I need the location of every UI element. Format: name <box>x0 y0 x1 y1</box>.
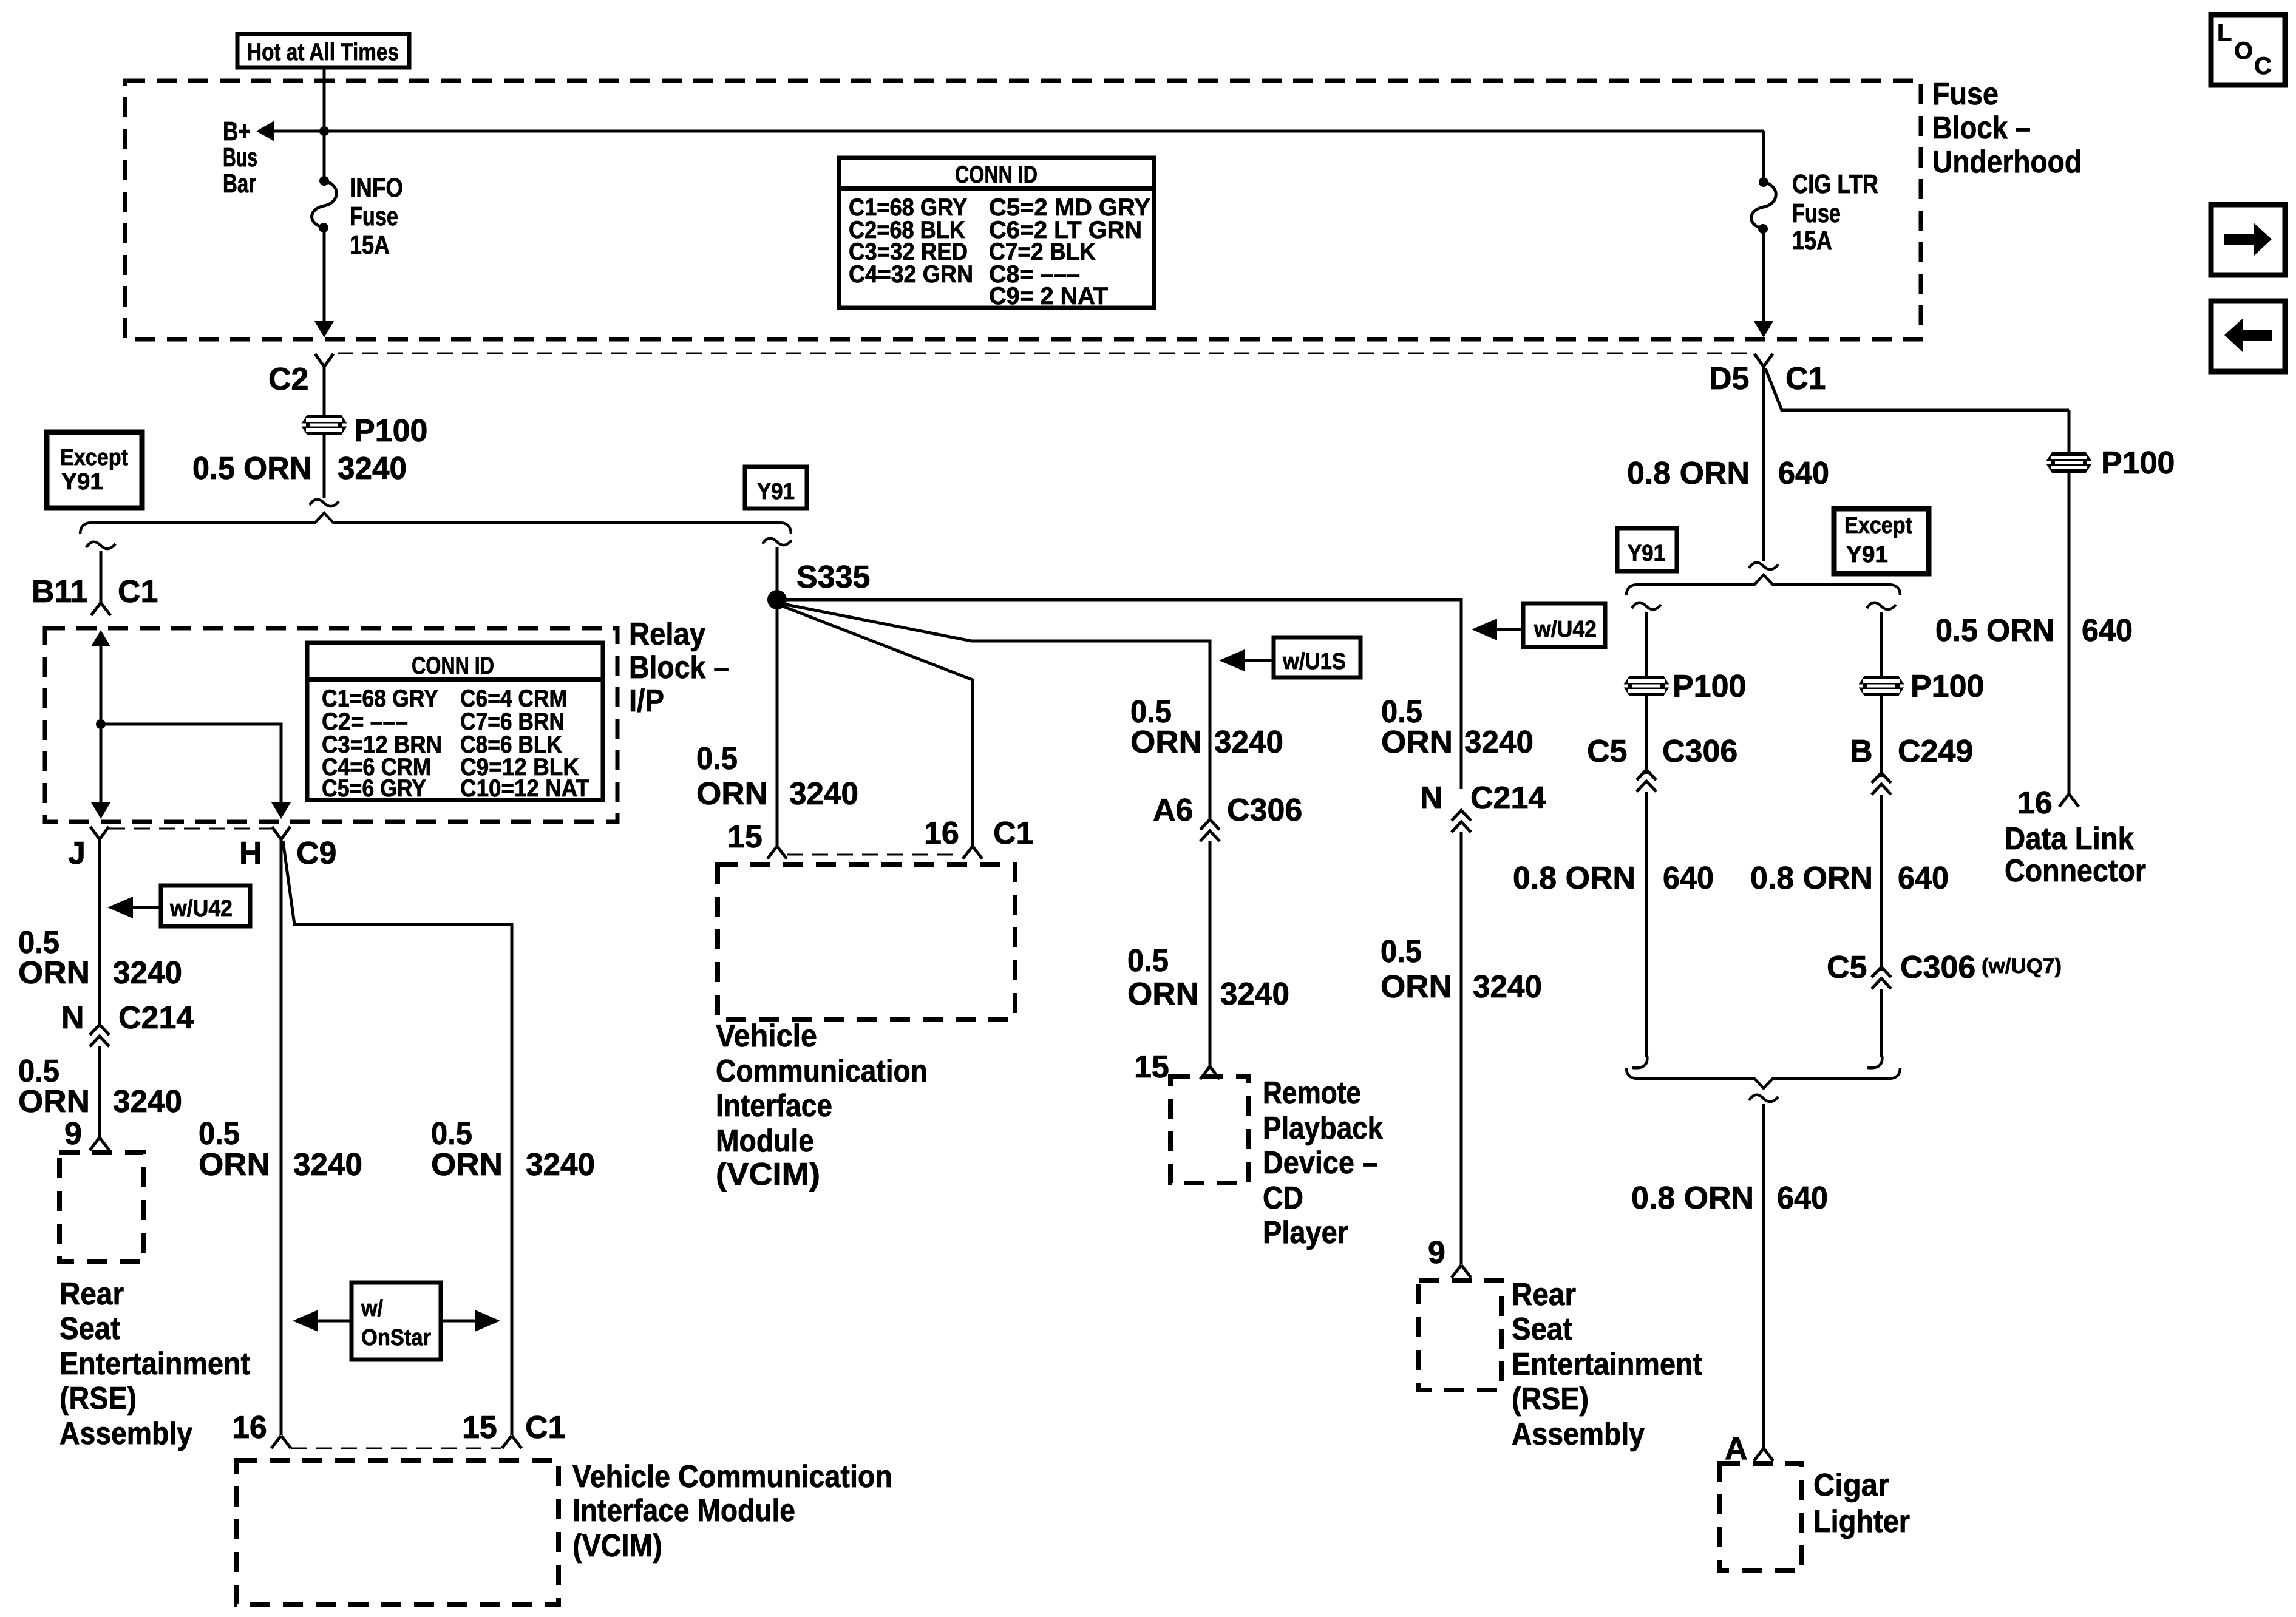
svg-text:16: 16 <box>2017 785 2053 821</box>
component name: Cigar Lighter <box>1813 1468 1910 1539</box>
svg-text:P100: P100 <box>1911 669 1984 704</box>
svg-text:A6: A6 <box>1153 793 1193 828</box>
svg-text:N: N <box>1420 781 1443 816</box>
label: N / C214 (left) <box>61 1000 194 1036</box>
svg-text:0.8 ORN: 0.8 ORN <box>1627 456 1750 491</box>
svg-text:C10=12 NAT: C10=12 NAT <box>460 775 589 802</box>
connector P100 grommet (Except-Y91 drop) <box>1858 676 1905 696</box>
wire: relay block internal branch to H <box>101 724 281 805</box>
svg-text:16: 16 <box>232 1410 267 1445</box>
svg-text:P100: P100 <box>1673 669 1746 704</box>
svg-text:3240: 3240 <box>526 1147 595 1182</box>
svg-text:C306: C306 <box>1662 734 1737 769</box>
connector B11/C1 into relay block <box>91 603 110 615</box>
svg-text:(RSE): (RSE) <box>59 1381 137 1416</box>
connector P100 grommet (Y91 drop) <box>1623 676 1670 696</box>
svg-text:16: 16 <box>924 816 959 851</box>
label: B / C249 <box>1850 734 1973 769</box>
svg-text:Underhood: Underhood <box>1932 144 2082 180</box>
value label: 0.5 ORN 3240 <box>192 451 407 486</box>
label: N / C214 (middle) <box>1420 781 1546 816</box>
svg-text:CONN ID: CONN ID <box>412 653 494 679</box>
label box: Hot at All Times <box>237 34 409 67</box>
svg-text:640: 640 <box>1898 861 1949 896</box>
svg-text:0.5 ORN: 0.5 ORN <box>1935 613 2054 648</box>
svg-text:Player: Player <box>1263 1215 1348 1250</box>
fuse: CIG LTR Fuse 15A <box>1751 177 1776 234</box>
connector C306 inline (double chevron, Y91 drop) <box>1637 770 1656 792</box>
Cigar Lighter dashed box <box>1720 1463 1802 1571</box>
svg-text:C4=32 GRN: C4=32 GRN <box>849 261 973 288</box>
node S335: splice <box>767 590 787 609</box>
svg-text:ORN: ORN <box>696 776 768 812</box>
svg-text:(VCIM): (VCIM) <box>572 1528 662 1564</box>
svg-text:Y91: Y91 <box>1846 542 1888 568</box>
wire break squiggle (Y91 drop) <box>1632 603 1661 609</box>
label arrow: w/U1S <box>1219 637 1360 677</box>
svg-text:Cigar: Cigar <box>1813 1468 1889 1503</box>
arrowhead: feed into relay block (up) <box>91 630 110 646</box>
wire: branch down to P100 (data link) <box>2068 410 2071 452</box>
connector: VCIM pin 15 <box>502 1436 521 1448</box>
wire: C1 diagonal branch to data link connector <box>1765 368 2069 410</box>
svg-text:P100: P100 <box>2101 446 2175 481</box>
value label: 0.5 ORN 3240 (N-C214 middle wire) <box>1381 694 1533 760</box>
svg-text:CD: CD <box>1263 1181 1303 1216</box>
svg-text:CONN ID: CONN ID <box>955 161 1038 188</box>
svg-text:Bus: Bus <box>223 143 257 172</box>
svg-text:O: O <box>2234 38 2253 64</box>
svg-text:J: J <box>68 836 86 871</box>
svg-text:0.5: 0.5 <box>696 741 738 776</box>
svg-text:Entertainment: Entertainment <box>1512 1347 1702 1382</box>
svg-text:Entertainment: Entertainment <box>59 1346 250 1381</box>
svg-text:0.5: 0.5 <box>1381 934 1422 969</box>
connector C306 inline (double chevron) <box>1200 819 1220 841</box>
connector: data link connector pin 16 <box>2059 794 2079 807</box>
svg-text:15: 15 <box>1134 1049 1169 1085</box>
svg-text:CIG LTR: CIG LTR <box>1792 169 1878 199</box>
connector: RSE assembly pin 9 <box>90 1137 109 1150</box>
value label: 0.5 ORN 3240 (CD wire) <box>1130 694 1283 760</box>
icon box: page arrow left <box>2211 301 2285 371</box>
svg-text:Fuse: Fuse <box>1792 198 1841 228</box>
wire: C214 to RSE pin 9 <box>98 1046 101 1137</box>
value label: 0.5 ORN 640 <box>1935 613 2133 648</box>
wire: P100 to C249 <box>1880 696 1883 777</box>
connector J: relay block output pin <box>90 827 109 839</box>
component name: VCIM (middle) <box>716 1019 928 1192</box>
label box: Except Y91 (right) <box>1834 509 1929 574</box>
boundary: thin dashed line at relay block outputs <box>109 828 273 830</box>
svg-text:3240: 3240 <box>789 776 858 812</box>
value label: 0.5 ORN 3240 (below A6) <box>1127 943 1289 1012</box>
wire: P100 to split brace, circuit 3240 <box>323 435 326 498</box>
svg-text:0.5: 0.5 <box>431 1116 472 1151</box>
svg-text:C306: C306 <box>1900 950 1975 985</box>
wire: relay block internal vertical <box>100 645 103 805</box>
wire: Y91 drop to P100 <box>1645 612 1648 676</box>
svg-text:C306: C306 <box>1227 793 1302 828</box>
svg-text:OnStar: OnStar <box>361 1325 431 1351</box>
Relay Block I/P dashed box <box>45 628 617 822</box>
svg-text:ORN: ORN <box>199 1147 270 1182</box>
wire: C214 to RSE pin 9 (middle) <box>1460 832 1463 1264</box>
connector P100 grommet (left) <box>301 415 348 435</box>
wire: P100 to data link pin 16, circuit 640 <box>2068 473 2071 794</box>
Vehicle Communication Interface Module dashed box (middle) <box>718 864 1015 1019</box>
label: A6 / C306 <box>1153 793 1302 828</box>
svg-text:C214: C214 <box>118 1000 194 1036</box>
svg-text:Relay: Relay <box>629 617 705 652</box>
fuse: INFO Fuse 15A <box>312 176 337 232</box>
Fuse Block - Underhood dashed box <box>125 81 1921 339</box>
svg-text:Except: Except <box>60 445 128 470</box>
value label: 0.8 ORN 640 (main) <box>1627 456 1829 491</box>
icon box: page arrow right <box>2211 205 2285 275</box>
svg-text:9: 9 <box>1428 1235 1445 1270</box>
connector: CD player pin 15 <box>1200 1066 1220 1079</box>
svg-text:640: 640 <box>1663 861 1714 896</box>
wire break squiggle above Y91 split brace <box>1749 563 1778 569</box>
svg-text:Remote: Remote <box>1263 1076 1361 1111</box>
svg-text:(w/UQ7): (w/UQ7) <box>1982 955 2062 978</box>
arrowhead: B+ bus bar <box>256 121 274 141</box>
svg-text:C5=6 GRY: C5=6 GRY <box>322 775 426 802</box>
wire: D5 down to Y91 split <box>1762 367 1765 561</box>
svg-text:Data Link: Data Link <box>2005 821 2134 856</box>
wire break squiggle above brace <box>310 500 339 506</box>
svg-text:15A: 15A <box>1792 226 1832 256</box>
svg-text:ORN: ORN <box>18 1084 90 1119</box>
table: CONN ID (fuse block underhood) <box>839 158 1154 310</box>
connector C2: fuse block pin <box>315 354 333 367</box>
connector: VCIM pin 16 (top) <box>963 846 982 859</box>
wire break hook (Except-Y91 drop end) <box>1867 1056 1882 1068</box>
label box: w/ OnStar with arrows <box>293 1283 500 1360</box>
wire: C306 to CD player pin 15 <box>1209 841 1212 1066</box>
svg-text:w/: w/ <box>361 1296 383 1321</box>
svg-text:Except: Except <box>1844 513 1912 538</box>
svg-text:Interface Module: Interface Module <box>572 1493 795 1528</box>
svg-text:Vehicle Communication: Vehicle Communication <box>572 1459 892 1494</box>
arrowhead: CIG LTR fuse exit <box>1754 321 1773 337</box>
svg-text:Rear: Rear <box>59 1276 124 1312</box>
svg-text:C2: C2 <box>268 362 308 397</box>
node: relay block internal junction <box>96 719 106 729</box>
svg-text:15A: 15A <box>350 230 390 260</box>
svg-text:3240: 3240 <box>1464 725 1533 760</box>
wire break squiggle (Except-Y91 drop) <box>1867 603 1896 609</box>
value label: 0.8 ORN 640 (cigar feed) <box>1631 1181 1828 1216</box>
brace: merge of Y91 and Except-Y91 feeds <box>1626 1068 1900 1088</box>
svg-text:C1: C1 <box>993 816 1033 851</box>
svg-text:3240: 3240 <box>338 451 407 486</box>
svg-text:Y91: Y91 <box>757 479 795 504</box>
svg-text:Vehicle: Vehicle <box>716 1019 817 1054</box>
svg-text:Y91: Y91 <box>61 469 103 495</box>
svg-text:C9: C9 <box>296 836 336 871</box>
component name: VCIM (bottom) <box>572 1459 892 1564</box>
svg-text:Interface: Interface <box>716 1088 832 1124</box>
svg-text:S335: S335 <box>796 560 870 595</box>
svg-text:(VCIM): (VCIM) <box>716 1157 820 1192</box>
connector: VCIM pin 15 (top) <box>767 846 787 859</box>
wire: J to N/C214, circuit 3240 <box>98 839 101 1025</box>
svg-text:9: 9 <box>64 1116 82 1151</box>
svg-text:C214: C214 <box>1470 781 1546 816</box>
svg-text:Hot at All Times: Hot at All Times <box>247 39 399 66</box>
wire: feed from Hot at All Times into fuse block <box>323 67 326 181</box>
connector C214 inline (double chevron, middle) <box>1452 810 1471 832</box>
svg-text:P100: P100 <box>354 413 427 449</box>
svg-text:640: 640 <box>2082 613 2133 648</box>
wire break hook (Y91 drop end) <box>1632 1056 1647 1068</box>
connector C306 w/UQ7 inline (double chevron) <box>1872 967 1891 989</box>
svg-text:15: 15 <box>727 819 763 855</box>
wire: C306 w/UQ7 to merge brace <box>1880 989 1883 1057</box>
wire: CIG LTR fuse feed drop <box>1762 131 1765 182</box>
svg-text:Module: Module <box>716 1124 814 1159</box>
svg-text:0.5 ORN: 0.5 ORN <box>192 451 311 486</box>
svg-text:w/U42: w/U42 <box>1533 617 1597 642</box>
wire: P100 to C306 <box>1645 696 1648 774</box>
node: junction of B+ bus bar and INFO fuse feed <box>319 126 329 136</box>
svg-text:Assembly: Assembly <box>59 1416 192 1451</box>
svg-text:Block –: Block – <box>1932 110 2031 146</box>
brace: split to Except-Y91 branch and Y91/S335 branch <box>80 513 791 534</box>
svg-text:3240: 3240 <box>113 1084 182 1119</box>
connector: cigar lighter pin A <box>1754 1448 1773 1461</box>
svg-text:Rear: Rear <box>1512 1277 1576 1312</box>
Rear Seat Entertainment (RSE) Assembly dashed box (right) <box>1419 1280 1501 1390</box>
svg-text:C1: C1 <box>118 574 158 609</box>
svg-text:0.8 ORN: 0.8 ORN <box>1750 861 1873 896</box>
wire: S335 diagonal to CD player branch <box>783 604 1210 819</box>
value label: 0.5 ORN 3240 (pin15 wire) <box>431 1116 595 1182</box>
svg-text:B: B <box>1850 734 1873 769</box>
connector: VCIM pin 16 <box>271 1436 291 1448</box>
connector: RSE pin 9 (middle) <box>1452 1265 1471 1278</box>
svg-text:L: L <box>2217 19 2232 46</box>
svg-text:640: 640 <box>1778 456 1829 491</box>
svg-text:Communication: Communication <box>716 1054 928 1089</box>
svg-text:(RSE): (RSE) <box>1512 1381 1589 1417</box>
brace: split to Y91 and Except-Y91 cigar feeds <box>1626 575 1900 595</box>
svg-text:ORN: ORN <box>1381 969 1452 1005</box>
component name: Rear Seat Entertainment (RSE) Assembly (left) <box>59 1276 250 1451</box>
wire break squiggle (left branch) <box>86 542 115 549</box>
svg-text:ORN: ORN <box>431 1147 503 1182</box>
svg-text:0.8 ORN: 0.8 ORN <box>1513 861 1635 896</box>
arrowhead: relay block exit H (down) <box>271 802 291 819</box>
svg-text:3240: 3240 <box>1214 725 1283 760</box>
svg-text:Block –: Block – <box>629 650 729 685</box>
wire: S335 horizontal to w/U42 branch <box>777 600 1461 789</box>
value label: 0.5 ORN 3240 (below C214 left) <box>18 1054 182 1119</box>
label: B+ Bus Bar <box>223 117 257 198</box>
icon box: LOC page symbol <box>2211 15 2285 85</box>
component name: Fuse Block - Underhood <box>1932 76 2082 180</box>
svg-text:3240: 3240 <box>113 955 182 991</box>
svg-text:w/U1S: w/U1S <box>1282 649 1346 674</box>
svg-text:ORN: ORN <box>1130 725 1202 760</box>
arrowhead: INFO fuse exit <box>314 321 334 337</box>
svg-text:B11: B11 <box>32 574 88 609</box>
wire: B+ bus bar horizontal <box>272 130 1764 133</box>
svg-text:3240: 3240 <box>1473 969 1542 1005</box>
component name: Data Link Connector <box>2005 821 2146 889</box>
wire: brace to S335 <box>776 547 779 600</box>
svg-text:I/P: I/P <box>629 683 664 719</box>
svg-text:Seat: Seat <box>59 1311 120 1346</box>
label: INFO Fuse 15A <box>350 173 403 260</box>
wire: C249 to C306 w/UQ7, circuit 640 <box>1880 795 1883 971</box>
svg-text:w/U42: w/U42 <box>169 896 233 921</box>
label arrow: w/U42 (left column) <box>107 886 250 926</box>
svg-text:C1: C1 <box>1785 361 1826 396</box>
svg-text:ORN: ORN <box>1127 977 1199 1012</box>
svg-text:Lighter: Lighter <box>1813 1504 1910 1539</box>
svg-text:0.5: 0.5 <box>1127 943 1169 978</box>
svg-text:Assembly: Assembly <box>1512 1417 1645 1452</box>
connector H/C9: relay block output pin <box>272 827 290 839</box>
component name: Relay Block - I/P <box>629 617 729 719</box>
label box: Except Y91 (left) <box>47 432 142 508</box>
wire: INFO fuse output to fuse block edge <box>323 228 326 322</box>
svg-text:Fuse: Fuse <box>1932 76 1999 112</box>
label: C5 / C306 <box>1587 734 1737 769</box>
label: CIG LTR Fuse 15A <box>1792 169 1878 256</box>
svg-text:ORN: ORN <box>1381 725 1453 760</box>
svg-text:3240: 3240 <box>293 1147 362 1182</box>
Vehicle Communication Interface Module dashed box (bottom) <box>237 1460 559 1604</box>
wire break squiggle below merge brace <box>1749 1095 1778 1102</box>
svg-text:C: C <box>2254 53 2272 80</box>
connector C249 inline (double chevron) <box>1872 773 1891 795</box>
svg-text:0.8 ORN: 0.8 ORN <box>1631 1181 1754 1216</box>
svg-text:C9= 2 NAT: C9= 2 NAT <box>989 283 1108 310</box>
svg-text:C5: C5 <box>1827 950 1867 985</box>
value label: 0.8 ORN 640 (Y91 drop) <box>1513 861 1714 896</box>
svg-text:Connector: Connector <box>2005 853 2146 889</box>
wire: S335 diagonal to VCIM pin 16 <box>783 606 973 849</box>
svg-text:640: 640 <box>1777 1181 1828 1216</box>
connector D5/C1: fuse block pin <box>1754 354 1773 367</box>
wire: H diagonal branch to VCIM pin 15 <box>283 841 512 1435</box>
svg-text:15: 15 <box>462 1410 497 1445</box>
svg-text:Y91: Y91 <box>1628 541 1665 566</box>
wire: C306 to merge brace, circuit 640 <box>1645 792 1648 1057</box>
value label: 0.5 ORN 3240 (pin16 wire) <box>199 1116 362 1182</box>
boundary: thin dashed line at VCIM bottom pins <box>291 1448 501 1449</box>
svg-text:C249: C249 <box>1898 734 1973 769</box>
svg-text:Fuse: Fuse <box>350 202 398 231</box>
svg-text:ORN: ORN <box>18 955 90 991</box>
value label: 0.8 ORN 640 (Except-Y91 drop) <box>1750 861 1949 896</box>
wire: C2 to P100 <box>323 367 326 415</box>
label arrow: w/U42 (middle) <box>1472 603 1605 647</box>
boundary: thin dashed harness line below fuse block <box>338 353 1751 354</box>
svg-text:Device –: Device – <box>1263 1145 1378 1181</box>
component name: Remote Playback Device - CD Player <box>1263 1076 1383 1250</box>
Rear Seat Entertainment (RSE) Assembly dashed box (left) <box>59 1153 143 1262</box>
svg-text:H: H <box>239 836 262 871</box>
svg-text:D5: D5 <box>1709 361 1749 396</box>
svg-text:0.5: 0.5 <box>199 1116 240 1151</box>
svg-text:C5: C5 <box>1587 734 1627 769</box>
label box: Y91 (left) <box>745 467 807 509</box>
wire: CIG LTR fuse output <box>1762 229 1765 322</box>
boundary: thin dashed line at VCIM top pins <box>787 854 962 856</box>
table: CONN ID (relay block I/P) <box>307 643 603 802</box>
label: C5 / C306 (w/UQ7) <box>1827 950 2062 985</box>
wire: Except-Y91 drop to P100 <box>1880 612 1883 676</box>
svg-text:C1: C1 <box>525 1410 565 1445</box>
value label: 0.5 ORN 3240 (S335-pin15) <box>696 741 858 812</box>
svg-text:Playback: Playback <box>1263 1111 1383 1146</box>
svg-text:N: N <box>61 1000 84 1036</box>
wire: S335 down to VCIM pin 15 <box>776 600 779 849</box>
wire: merge to cigar lighter pin A, circuit 640 <box>1762 1104 1765 1448</box>
svg-text:Seat: Seat <box>1512 1312 1572 1347</box>
component name: Rear Seat Entertainment (RSE) Assembly (right) <box>1512 1277 1702 1452</box>
wire: H to VCIM pin 16 <box>280 839 283 1435</box>
arrowhead: relay block exit J (down) <box>91 802 110 819</box>
Remote Playback Device dashed box <box>1170 1076 1249 1183</box>
svg-text:Bar: Bar <box>223 169 256 198</box>
value label: 0.5 ORN 3240 (middle low) <box>1381 934 1542 1005</box>
connector C214 inline (double chevron) <box>90 1025 109 1046</box>
svg-text:INFO: INFO <box>350 173 403 203</box>
wire break squiggle (Y91 branch above S335) <box>763 538 792 545</box>
label box: Y91 (right) <box>1617 528 1677 571</box>
svg-text:3240: 3240 <box>1220 977 1289 1012</box>
connector P100 grommet (data link) <box>2045 452 2093 473</box>
svg-text:B+: B+ <box>223 117 251 146</box>
value label: 0.5 ORN 3240 (J wire) <box>18 925 182 991</box>
wire: brace to B11 <box>100 551 103 603</box>
